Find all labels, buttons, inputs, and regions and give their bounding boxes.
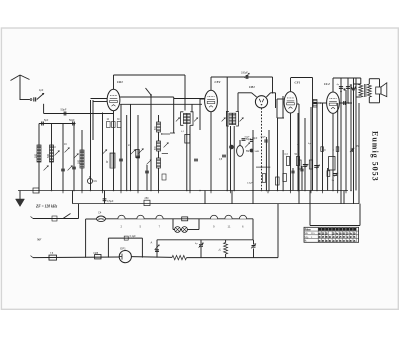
svg-text:250: 250 bbox=[145, 197, 150, 200]
svg-text:EP1: EP1 bbox=[120, 247, 126, 251]
svg-text:CL2: CL2 bbox=[324, 82, 330, 86]
svg-text:500: 500 bbox=[35, 153, 38, 158]
svg-text:50pF: 50pF bbox=[245, 137, 251, 139]
svg-text:5M: 5M bbox=[246, 151, 249, 153]
svg-text:NF: NF bbox=[36, 238, 42, 242]
svg-text:FM5: FM5 bbox=[94, 253, 99, 255]
svg-text:100pF: 100pF bbox=[241, 72, 248, 75]
svg-text:ZF = 128 kHz: ZF = 128 kHz bbox=[35, 205, 58, 209]
svg-text:CK1: CK1 bbox=[117, 80, 123, 84]
svg-text:0,5µF: 0,5µF bbox=[247, 183, 253, 185]
svg-text:Ug₂: Ug₂ bbox=[305, 237, 309, 239]
svg-text:500: 500 bbox=[47, 153, 50, 158]
svg-text:Eumig 5053: Eumig 5053 bbox=[371, 131, 380, 182]
svg-text:50pF: 50pF bbox=[69, 119, 75, 122]
svg-text:0,5µF: 0,5µF bbox=[107, 200, 114, 203]
svg-text:0,1µF: 0,1µF bbox=[130, 235, 137, 238]
svg-text:5MΩ: 5MΩ bbox=[255, 151, 260, 153]
svg-text:1pF: 1pF bbox=[39, 89, 44, 92]
svg-text:50pF: 50pF bbox=[61, 108, 67, 112]
svg-text:C4: C4 bbox=[98, 211, 102, 215]
svg-text:5pF: 5pF bbox=[44, 119, 49, 122]
svg-text:A: A bbox=[151, 241, 153, 245]
svg-text:50pF: 50pF bbox=[261, 137, 267, 139]
svg-text:500: 500 bbox=[78, 159, 81, 164]
svg-text:11: 11 bbox=[228, 225, 231, 229]
svg-text:Röhre: Röhre bbox=[305, 228, 312, 231]
svg-text:CF2: CF2 bbox=[215, 80, 221, 84]
svg-text:CB1: CB1 bbox=[249, 85, 255, 89]
svg-text:CF1: CF1 bbox=[295, 81, 301, 85]
